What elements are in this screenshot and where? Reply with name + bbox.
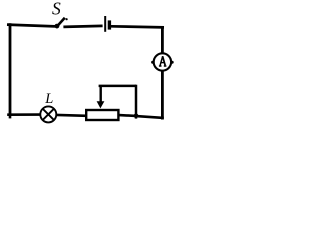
wire right vertical lower (ammeter to bottom corner) [161,71,164,120]
switch S tip dot [66,18,68,20]
ammeter right terminal bump [171,61,174,64]
battery short thick plate [108,20,111,29]
wire bottom-right horizontal (corner to junction) [136,116,164,118]
rheostat wiper arrow shaft [99,86,101,105]
wire wiper loop right vertical [135,85,138,119]
ammeter left terminal bump [151,61,154,64]
wire right vertical upper (corner to ammeter) [161,26,164,53]
switch S blade [57,18,65,27]
rheostat body R [86,110,118,120]
lamp X stroke 1 [43,109,54,120]
wire rheostat left terminal to lamp [57,114,87,118]
rheostat wiper arrowhead [97,101,105,108]
ammeter A circle [154,53,171,70]
wire lamp to bottom-left corner [7,113,40,116]
svg-text:L: L [44,91,53,107]
wire wiper loop top [99,85,136,88]
wire left vertical [9,23,12,116]
switch S pivot dot [55,24,60,29]
wire bottom-left overshoot tick [9,115,12,119]
wire switch to battery [63,26,102,27]
junction dot [134,113,139,118]
wire top-left horizontal (left corner to switch) [7,25,55,27]
battery long plate [104,16,106,32]
lamp L circle [40,106,56,122]
wire battery to top-right corner [111,26,164,27]
svg-text:S: S [52,0,61,18]
lamp X stroke 2 [43,109,54,120]
ammeter letter A [159,56,167,66]
wire junction to rheostat right terminal [119,114,136,117]
